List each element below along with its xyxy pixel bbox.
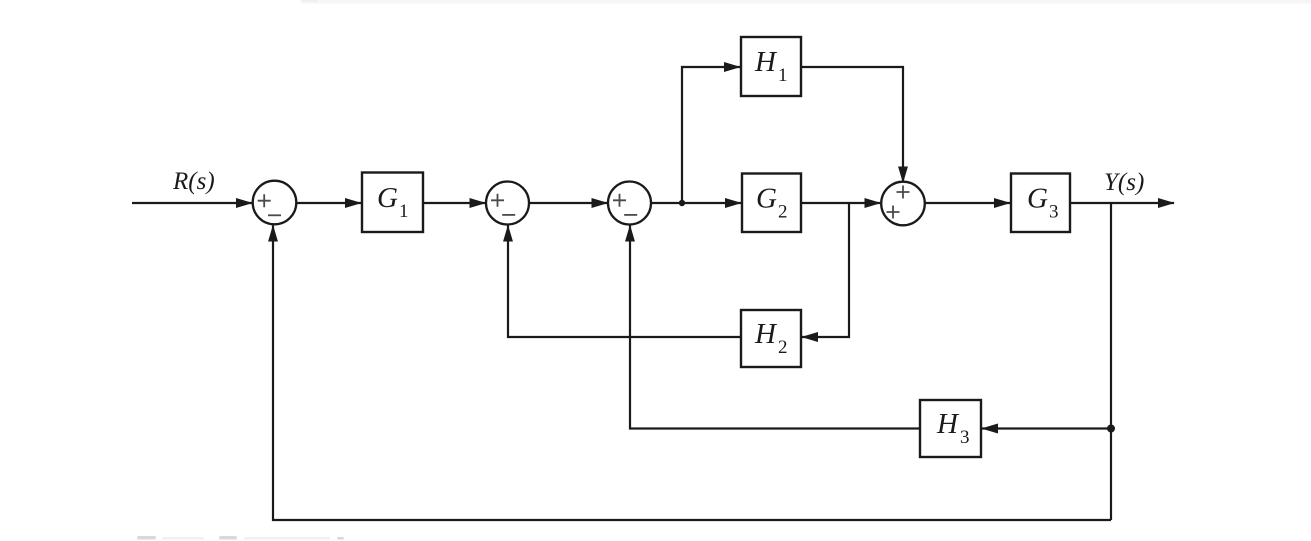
svg-text:G: G <box>377 182 398 214</box>
wire S4 to G3 <box>925 202 1010 204</box>
svg-text:3: 3 <box>1049 202 1059 223</box>
svg-text:R(s): R(s) <box>172 168 215 195</box>
svg-text:G: G <box>756 183 777 215</box>
block H1 <box>741 37 801 96</box>
svg-text:1: 1 <box>399 201 409 222</box>
node A junction dot <box>679 200 685 206</box>
wire output Y(s) <box>1070 202 1174 204</box>
wire S3 to G2 (through node A) <box>652 202 742 204</box>
svg-text:H: H <box>754 318 778 350</box>
svg-text:G: G <box>1027 183 1048 215</box>
svg-text:1: 1 <box>778 65 788 86</box>
wire S2 to S3 <box>530 202 608 204</box>
svg-text:2: 2 <box>778 337 788 358</box>
block H2 <box>741 310 801 367</box>
wire H2 output up to S2 bottom <box>508 226 741 338</box>
svg-text:Y(s): Y(s) <box>1104 169 1144 196</box>
summing junction S2 <box>486 182 529 225</box>
block G2 <box>742 174 801 233</box>
block G1 <box>362 173 423 233</box>
wire H3 output up to S3 bottom <box>630 226 920 429</box>
block H3 <box>920 400 981 457</box>
wire node B to H3 input <box>982 427 1111 429</box>
wire H1 output down to S4 top <box>801 67 903 183</box>
top page-edge gray strip <box>300 0 1311 4</box>
svg-text:H: H <box>936 408 960 440</box>
summing junction S3 <box>608 182 651 225</box>
wire G2 to S4 <box>801 202 881 204</box>
summing junction S4 <box>881 182 925 226</box>
wire input R(s) <box>132 202 252 204</box>
svg-text:3: 3 <box>960 427 970 448</box>
wire node A up to H1 <box>682 67 740 203</box>
summing junction S1 <box>253 181 297 225</box>
svg-text:H: H <box>754 46 778 78</box>
wire S1 to G1 <box>297 202 362 204</box>
wire G1 to S2 <box>423 202 486 204</box>
node B junction dot <box>1107 425 1115 433</box>
wire Y takeoff down <box>1110 203 1112 520</box>
wire bottom feedback to S1 <box>273 226 1111 521</box>
block G3 <box>1011 174 1070 233</box>
bottom cropped caption remnants <box>137 536 344 540</box>
wire G2-output takeoff down into H2 <box>802 203 849 337</box>
svg-text:2: 2 <box>778 202 788 223</box>
